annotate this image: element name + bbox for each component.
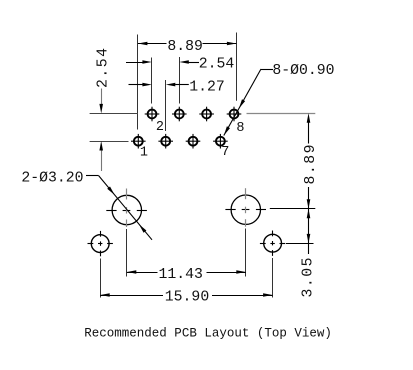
svg-text:1: 1: [140, 146, 148, 161]
svg-text:8-Ø0.90: 8-Ø0.90: [272, 63, 334, 79]
extension line right (pin8 column) for top 8.89 dim: [236, 33, 238, 101]
pin hole 2 pad: [145, 107, 160, 122]
dimension line 8.89 right vertical: [308, 123, 310, 144]
small hole right: [264, 234, 282, 252]
mounting hole left centerline vertical: [126, 189, 128, 200]
mounting hole right centerline horizontal: [225, 209, 235, 211]
dimension line 8.89 top: [138, 43, 167, 45]
dimension line 3.05 right vertical: [308, 209, 310, 254]
extension line from pin 8 row to the right: [247, 113, 316, 115]
extension line pin3 column: [165, 80, 167, 131]
extension line left (pin1 column) for top 8.89 dim: [137, 35, 139, 130]
mounting hole right (3.20 dia): [231, 195, 260, 224]
extension line below left mounting hole: [126, 229, 128, 277]
svg-text:3.05: 3.05: [301, 256, 317, 298]
small hole left: [91, 235, 109, 253]
dimension line 15.90: [100, 295, 163, 297]
extension line pin2 column: [151, 58, 153, 104]
svg-text:8.89: 8.89: [167, 39, 203, 55]
extension line bottom pin row going left: [90, 141, 129, 143]
extension line below right mounting hole: [245, 229, 247, 277]
dimension 2.54 right arrow with tail: [189, 62, 200, 64]
mounting hole left centerline horizontal: [106, 210, 116, 212]
dimension line 11.43: [127, 272, 158, 274]
svg-text:7: 7: [221, 145, 229, 160]
mounting hole left (3.20 dia): [112, 195, 141, 224]
extension line below right small hole: [272, 258, 274, 298]
dimension 2.54 vertical top arrow with tail: [101, 89, 103, 105]
pin hole 5 pad: [186, 134, 201, 149]
svg-text:Recommended PCB Layout (Top Vi: Recommended PCB Layout (Top View): [84, 326, 332, 340]
extension line from right mounting hole to the right: [270, 208, 316, 210]
leader line 8-dia0.90 to pin 8 and pin 7: [261, 69, 273, 71]
extension line below left small hole: [100, 259, 102, 298]
mounting hole right centerline vertical: [245, 188, 247, 199]
dimension 1.27 right arrow with tail: [175, 84, 189, 86]
svg-text:1.27: 1.27: [189, 79, 225, 95]
pin hole 6 pad: [199, 107, 214, 122]
pin hole 7 pad: [213, 134, 228, 149]
svg-text:8: 8: [236, 121, 244, 136]
pin hole 1 pad: [131, 134, 146, 149]
dimension 1.27 left arrow with tail: [129, 84, 143, 86]
pin hole 3 pad: [158, 134, 173, 149]
pin hole 4 pad: [172, 107, 187, 122]
svg-text:2.54: 2.54: [199, 57, 235, 73]
svg-text:2: 2: [156, 120, 164, 135]
svg-text:2.54: 2.54: [96, 46, 112, 88]
extension line top pin row going left: [90, 113, 138, 115]
pin hole 8 pad: [227, 107, 242, 122]
extension line from right small hole to the right: [286, 243, 314, 245]
svg-text:15.90: 15.90: [165, 290, 209, 306]
leader line 2-dia3.20 through left mounting hole: [86, 175, 99, 177]
dimension 2.54 left arrow with tail: [126, 62, 143, 64]
svg-text:11.43: 11.43: [159, 267, 203, 283]
svg-text:8.89: 8.89: [303, 143, 319, 185]
extension line pin4 column: [179, 57, 181, 104]
dimension 2.54 vertical bottom arrow with tail: [101, 151, 103, 172]
svg-text:2-Ø3.20: 2-Ø3.20: [21, 170, 83, 186]
